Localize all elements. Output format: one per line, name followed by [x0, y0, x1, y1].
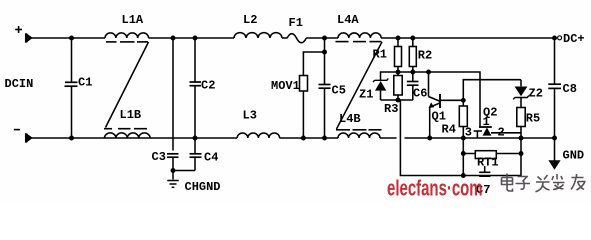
node MOV jog corner [322, 50, 327, 55]
svg-text:L2: L2 [243, 13, 257, 27]
ground CHGND symbol [167, 171, 178, 188]
ground GND symbol [548, 160, 560, 170]
svg-text:DCIN: DCIN [5, 77, 34, 91]
capacitor C7 [479, 166, 490, 176]
node bottom bus [461, 173, 466, 178]
wire R3 drop [400, 100, 463, 176]
node R5 wire cross [519, 136, 524, 141]
node Q1 collector bus [426, 70, 431, 75]
wire choke L1 diagonal [106, 42, 149, 128]
capacitor C6 [407, 72, 419, 100]
svg-text:L4B: L4B [339, 112, 361, 126]
resistor R1 [395, 38, 402, 72]
wire R4top to Z2 [463, 80, 521, 101]
svg-text:L3: L3 [243, 109, 257, 123]
svg-text:CHGND: CHGND [185, 180, 221, 194]
wire top rail mid1 [149, 37, 235, 39]
capacitor C1 [65, 38, 78, 138]
node R3 bottom [396, 98, 401, 103]
thyristor Q2 [474, 127, 521, 138]
capacitor C3 [167, 154, 179, 157]
resistor R4 [459, 100, 467, 138]
inductor L4B [338, 133, 380, 138]
wire choke L4 diagonal [337, 42, 383, 129]
node R1 bus [396, 70, 401, 75]
node C2 bottom [193, 136, 198, 141]
core dashes L1A [106, 41, 148, 43]
terminal - (DCIN negative) [14, 130, 32, 143]
wire top rail mid2 [282, 37, 287, 39]
node C2 top [193, 36, 198, 41]
varistor MOV1 [300, 76, 308, 92]
node R5 RT1 bus [519, 151, 524, 156]
wire MOV1 bottom [302, 91, 304, 138]
node C3 top [171, 36, 176, 41]
wire bottom rail mid [279, 137, 338, 139]
svg-text:R2: R2 [418, 49, 432, 63]
svg-text:R3: R3 [384, 102, 398, 116]
node RT1 bus left [461, 151, 466, 156]
svg-text:Q1: Q1 [432, 110, 446, 124]
capacitor C2 [190, 38, 202, 138]
node MOV jog top [322, 36, 327, 41]
capacitor C8 [548, 38, 561, 138]
inductor L4A [338, 33, 381, 38]
svg-text:Z2: Z2 [529, 87, 543, 101]
wire MOV jog [303, 38, 324, 76]
wire GND drop [554, 138, 556, 161]
svg-text:C6: C6 [413, 87, 427, 101]
wire C3 to chassis node [172, 157, 174, 170]
node Q1 emitter bottom [427, 136, 432, 141]
resistor R2 [409, 38, 416, 72]
resistor R5 [517, 108, 525, 154]
inductor L2 [234, 33, 282, 38]
wire C3 branch vertical [172, 38, 174, 151]
node C8 top [552, 36, 557, 41]
wire RT1 bus [463, 153, 521, 155]
svg-text:C2: C2 [201, 79, 215, 93]
core dashes L4A [336, 41, 382, 43]
watermark chinese characters [502, 174, 586, 192]
capacitor C4 [190, 138, 202, 171]
svg-text:1: 1 [483, 115, 490, 129]
thermistor RT1 [475, 151, 496, 159]
inductor L1A [105, 33, 149, 38]
svg-text:C5: C5 [332, 84, 346, 98]
svg-text:C1: C1 [78, 76, 92, 90]
zener Z2 [513, 80, 529, 108]
wire top rail left [31, 37, 105, 39]
node R2 bus [410, 70, 415, 75]
wire bus y100 [381, 99, 413, 101]
svg-text:RT1: RT1 [477, 156, 499, 170]
node R1 top [396, 36, 401, 41]
svg-text:C4: C4 [204, 151, 218, 165]
svg-text:L4A: L4A [337, 13, 359, 27]
node MOV1 bottom [301, 136, 306, 141]
node C8 bottom [552, 136, 557, 141]
svg-text:C8: C8 [563, 82, 577, 96]
wire Z2 branch to bottom bus [463, 154, 521, 176]
wire bus y72 [381, 72, 481, 126]
svg-text:R4: R4 [442, 123, 456, 137]
terminal + (DCIN positive) [15, 26, 32, 42]
terminal DC+ circle [558, 36, 562, 40]
wire bottom rail right1 [380, 137, 397, 139]
svg-text:C3: C3 [152, 150, 166, 164]
svg-text:L1A: L1A [122, 13, 144, 27]
wire RT1 bus left [462, 138, 464, 176]
node C1 bottom [69, 136, 74, 141]
node R4 top [461, 98, 466, 103]
wire top rail right [381, 37, 555, 39]
svg-text:R1: R1 [373, 48, 387, 62]
svg-text:3: 3 [465, 126, 472, 140]
wire chassis bus [173, 170, 195, 172]
node chassis [171, 168, 176, 173]
resistor R3 [394, 72, 402, 100]
svg-text:F1: F1 [289, 16, 303, 30]
svg-text:L1B: L1B [120, 108, 142, 122]
capacitor C5 [319, 52, 331, 138]
node R4 bottom [461, 136, 466, 141]
transistor Q1 [429, 72, 464, 138]
svg-text:2: 2 [498, 126, 505, 140]
inductor L1B [105, 133, 151, 138]
node C1 top [69, 36, 74, 41]
svg-text:Z1: Z1 [359, 88, 373, 102]
core dashes L1B [104, 128, 147, 130]
zener Z1 [373, 79, 388, 101]
node R2 top [410, 36, 415, 41]
svg-text:R5: R5 [526, 112, 540, 126]
wire bottom rail left [31, 137, 237, 139]
inductor L3 [237, 133, 279, 138]
node C5 bottom [322, 136, 327, 141]
svg-text:DC+: DC+ [563, 32, 585, 46]
svg-text:MOV1: MOV1 [271, 79, 300, 93]
wire top rail mid3 [306, 37, 338, 39]
wire bottom rail right2 [405, 137, 555, 139]
svg-text:GND: GND [563, 149, 585, 163]
svg-text:elecfans·com: elecfans·com [387, 176, 483, 201]
core dashes L4B [336, 129, 382, 131]
fuse F1 [287, 34, 306, 43]
